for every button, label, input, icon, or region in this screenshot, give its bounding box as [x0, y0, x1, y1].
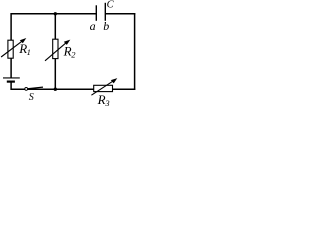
wire left vertical upper (to battery): [10, 13, 12, 77]
svg-text:a: a: [90, 19, 96, 33]
resistor R2 arrow: [45, 42, 67, 60]
svg-text:R: R: [97, 92, 106, 107]
switch S pivot circle: [25, 88, 28, 91]
svg-text:S: S: [29, 92, 34, 103]
svg-text:b: b: [103, 19, 109, 33]
resistor R1 arrow: [1, 41, 22, 57]
switch S blade: [28, 87, 43, 89]
battery short thick plate (-): [7, 80, 15, 82]
wire top-left horizontal to capacitor plate a: [11, 13, 97, 15]
wire bottom horizontal: [11, 88, 136, 90]
wire top-right from capacitor plate b to right corner: [105, 13, 135, 15]
wire left vertical lower (battery to bottom): [10, 82, 12, 90]
svg-text:1: 1: [27, 47, 31, 57]
capacitor plate b (right): [104, 3, 106, 21]
battery long plate (+): [3, 77, 20, 79]
resistor R3 box: [94, 85, 113, 91]
wire right vertical: [134, 13, 136, 90]
junction node bottom (R2 / bottom wire): [54, 88, 57, 91]
junction node top (R2 / top wire): [54, 12, 57, 15]
resistor R1 box: [8, 40, 13, 58]
svg-text:2: 2: [71, 49, 76, 59]
resistor R3 arrow: [91, 81, 113, 96]
resistor R2 box: [53, 39, 58, 58]
svg-text:C: C: [107, 0, 115, 11]
capacitor plate a (left): [95, 5, 97, 20]
svg-text:3: 3: [104, 98, 109, 107]
wire middle branch R2 vertical: [54, 14, 56, 89]
